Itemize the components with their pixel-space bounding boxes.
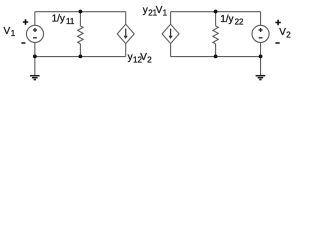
wire: D2 top stub (170, 12, 172, 25)
V2 source + (inner) (259, 28, 263, 32)
wire: V2 top stub (260, 12, 262, 26)
svg-text:11: 11 (66, 17, 75, 26)
resistor R1 (1/y11) zigzag (78, 26, 83, 44)
wire: D2 bottom stub (170, 44, 172, 57)
V1 polarity + (outer) (23, 19, 28, 24)
junction dot R2 top (214, 10, 218, 14)
wire: right ground stub (260, 57, 262, 76)
V1 source - (inner) (33, 37, 37, 39)
svg-text:22: 22 (235, 17, 244, 26)
wire: D1 bottom stub (125, 44, 127, 57)
svg-text:1/y: 1/y (220, 14, 233, 25)
voltage source V2 (252, 25, 269, 42)
junction dot R1 top (79, 10, 83, 14)
wire: left circuit bottom rail (35, 56, 126, 58)
dependent source diamond y21V1 (162, 24, 179, 43)
junction dot R1 bottom (79, 55, 83, 59)
arrow inside diamond D1 (125, 29, 127, 37)
junction dot R2 bottom (214, 55, 218, 59)
svg-text:V: V (140, 52, 147, 63)
svg-text:1/y: 1/y (52, 14, 65, 25)
V2 source - (inner) (259, 37, 263, 39)
arrow inside diamond D2 (170, 29, 172, 37)
wire: right circuit bottom rail (171, 56, 261, 58)
junction dot V2/ground (259, 55, 263, 59)
V1 source + (inner) (33, 28, 37, 32)
wire: R2 top stub (215, 12, 217, 26)
V2 polarity - (outer) (275, 42, 279, 44)
junction dot V1/ground (33, 55, 37, 59)
dependent source diamond y12V2 (117, 24, 134, 43)
wire: V2 bottom stub (260, 42, 262, 56)
ground (left) (30, 76, 40, 80)
wire: V1 top stub (34, 12, 36, 26)
V1 polarity - (outer) (21, 42, 25, 44)
voltage source V1 (26, 25, 43, 42)
svg-text:y: y (128, 52, 133, 63)
resistor R2 (1/y22) zigzag (213, 26, 218, 44)
wire: D1 top stub (125, 12, 127, 25)
V2 polarity + (outer) (275, 20, 280, 25)
svg-text:1: 1 (11, 29, 16, 38)
svg-text:V: V (4, 26, 11, 37)
wire: left circuit top rail (35, 11, 126, 13)
wire: left ground stub (34, 57, 36, 76)
wire: R1 bottom stub (79, 44, 81, 57)
wire: V1 bottom stub (34, 42, 36, 56)
svg-text:2: 2 (286, 31, 291, 40)
svg-text:y: y (143, 5, 148, 16)
wire: R1 top stub (79, 12, 81, 26)
svg-text:2: 2 (147, 56, 152, 65)
wire: R2 bottom stub (215, 44, 217, 57)
svg-text:1: 1 (163, 9, 168, 18)
ground (right) (256, 76, 266, 80)
wire: right circuit top rail (171, 11, 261, 13)
